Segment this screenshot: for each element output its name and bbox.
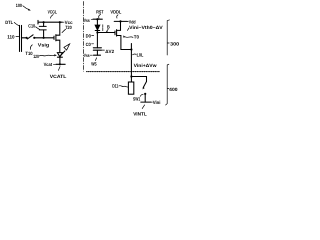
wire node B down to capacitor (96, 33, 98, 48)
svg-text:Vcat: Vcat (44, 62, 53, 67)
svg-text:VINTL: VINTL (133, 112, 147, 117)
leader C10 (36, 27, 40, 30)
leader RST (99, 14, 101, 18)
VCGL rail (38, 21, 62, 23)
rail left end tick (37, 20, 39, 24)
wire node B to gate (97, 32, 115, 34)
leader D11 wavy (119, 86, 128, 87)
node rail-drain junction (59, 21, 61, 23)
svg-text:T0: T0 (134, 34, 140, 39)
node switch right contact (33, 37, 35, 39)
leader T10 (30, 45, 32, 50)
leader Vini-Vth0-dV (127, 28, 129, 30)
svg-text:Vini: Vini (153, 100, 161, 105)
main vertical node line (130, 44, 132, 77)
svg-text:120: 120 (33, 54, 39, 59)
svg-text:C10: C10 (28, 24, 35, 29)
svg-text:ΔV2: ΔV2 (105, 49, 114, 54)
svg-text:T20: T20 (65, 25, 72, 30)
svg-text:L0L: L0L (137, 53, 144, 58)
node capacitor junction (43, 37, 45, 39)
dash Vini (151, 101, 153, 103)
leader DTL (14, 22, 19, 25)
node rail-cap junction (43, 21, 45, 23)
leader 120 wavy (39, 54, 54, 57)
svg-text:SW1: SW1 (133, 96, 140, 101)
leader VINTL (142, 105, 144, 109)
svg-text:D11: D11 (112, 84, 118, 89)
C0 bottom bar (94, 54, 101, 56)
svg-text:VDDL: VDDL (110, 10, 121, 15)
svg-text:Vini−Vth0−ΔV: Vini−Vth0−ΔV (129, 25, 163, 30)
wire contact to VINTL bar (144, 94, 146, 102)
node RST bar junction (96, 18, 98, 20)
box D11 (128, 82, 133, 94)
dash D0 (92, 34, 94, 36)
leader L0L (133, 53, 137, 56)
block divider dotted (87, 71, 160, 73)
svg-text:DTL: DTL (5, 20, 13, 25)
leader T0 wavy arrow (125, 36, 133, 39)
transistor T20 (53, 36, 55, 39)
OLED emission arrow (60, 51, 65, 56)
svg-text:Vini+ΔVw: Vini+ΔVw (134, 63, 157, 68)
RST bar (93, 18, 102, 20)
svg-text:T10: T10 (25, 51, 33, 56)
node switch left contact (26, 37, 28, 39)
dash Vss bottom (90, 54, 92, 56)
leader arrow B (107, 29, 109, 31)
leader SW1 (140, 94, 143, 96)
dash 300 (167, 42, 169, 44)
dash Vss top (91, 18, 93, 20)
svg-text:D0: D0 (86, 33, 92, 38)
svg-text:WS: WS (91, 61, 97, 66)
switch SW1 blade (143, 82, 146, 88)
dash Vcat (53, 63, 55, 65)
wire switch to gate (34, 37, 54, 39)
node B junction (96, 31, 98, 33)
wire bus to switch (21, 37, 26, 39)
svg-text:VCATL: VCATL (50, 74, 67, 79)
dash C0 (92, 43, 94, 45)
svg-text:Vss: Vss (84, 18, 90, 23)
svg-text:400: 400 (169, 87, 178, 92)
node source junction (130, 48, 132, 50)
dash Vcc (62, 21, 64, 23)
dash 400 (167, 87, 169, 89)
svg-text:100: 100 (16, 3, 23, 8)
dash 110 (16, 36, 19, 38)
leader VCGL (51, 15, 54, 19)
svg-text:300: 300 (170, 41, 179, 46)
OLED diode (57, 53, 62, 57)
dash dV2 (102, 49, 105, 51)
svg-text:Vsig: Vsig (38, 43, 49, 48)
leader VDDL (117, 15, 118, 18)
node VDDL junction (119, 20, 121, 22)
switch T10 blade (27, 35, 33, 39)
svg-text:VCGL: VCGL (48, 9, 57, 14)
svg-text:B: B (107, 25, 110, 30)
svg-text:110: 110 (7, 35, 15, 40)
diode D0 (95, 25, 100, 30)
brace line 400 (166, 64, 169, 105)
VCATL bar (56, 63, 65, 65)
wire node to switch (131, 77, 146, 82)
leader arrow for 100 (23, 6, 30, 10)
leader VCATL (58, 67, 60, 71)
node VCATL junction (59, 63, 61, 65)
leader WS (95, 58, 96, 61)
svg-text:Vdd: Vdd (129, 19, 136, 24)
svg-text:RST: RST (96, 10, 103, 15)
switch SW1 bottom contact (144, 93, 146, 95)
VINTL bar (141, 101, 151, 103)
dash Vdd (127, 20, 128, 22)
dashed marks near node B (102, 25, 104, 28)
panel divider vertical dash-dot (83, 2, 85, 72)
wire node to box D11 (130, 77, 132, 83)
VDDL bar (114, 20, 127, 22)
capacitor C10 (43, 22, 45, 26)
leader T20 (62, 29, 66, 32)
svg-text:C0: C0 (86, 42, 92, 47)
wire RST to diode (96, 19, 98, 25)
node D11 junction (130, 75, 132, 77)
transistor T0 (114, 31, 116, 35)
capacitor C0 (93, 47, 101, 49)
data line bus 110 (19, 25, 21, 51)
svg-text:Vss: Vss (84, 53, 90, 58)
brace line 300 (167, 20, 169, 55)
